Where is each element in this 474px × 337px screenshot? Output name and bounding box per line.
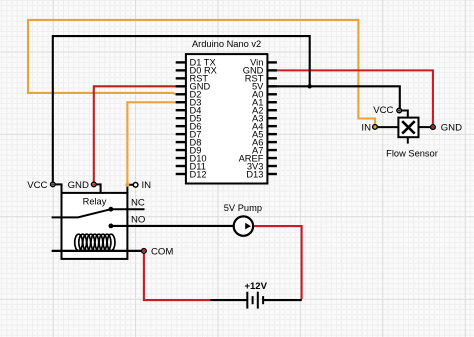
relay contact NC — [109, 207, 145, 212]
pin D7 — [176, 129, 202, 139]
relay coil L1 — [75, 234, 115, 250]
pin GND — [176, 82, 211, 92]
pin RST — [245, 74, 277, 84]
pin D9 — [176, 145, 202, 155]
pin RST — [176, 74, 209, 84]
svg-text:NO: NO — [131, 214, 145, 225]
wire D3 to Relay IN (orange) — [127, 102, 176, 185]
IC U1 Arduino Nano v2 body — [186, 54, 268, 183]
relay switch common arm — [52, 209, 111, 217]
pin A3 — [252, 113, 277, 123]
wire GND to Flow Sensor GND (red) — [276, 70, 433, 127]
svg-text:GND: GND — [68, 180, 89, 191]
pin D8 — [176, 137, 202, 147]
svg-text:Flow Sensor: Flow Sensor — [386, 149, 438, 159]
relay K1 body — [62, 193, 128, 259]
pin 5V — [252, 82, 277, 92]
terminal GND (relay) — [92, 182, 101, 193]
svg-text:D12: D12 — [190, 169, 207, 179]
pin D10 — [176, 153, 207, 163]
svg-text:Relay: Relay — [83, 197, 107, 207]
svg-text:COM: COM — [151, 246, 173, 257]
pump M1 5V Pump — [234, 216, 253, 235]
wire GND to Relay GND (red) — [94, 86, 176, 184]
svg-text:GND: GND — [441, 123, 462, 134]
pin D4 — [176, 106, 202, 116]
wire D2 to Flow Sensor IN (orange) — [28, 20, 375, 127]
relay contact NO — [109, 224, 234, 229]
wire Relay VCC to 5V junction (black) — [53, 36, 310, 184]
pin D6 — [176, 121, 202, 131]
pin D12 — [176, 169, 207, 179]
pin A7 — [252, 145, 277, 155]
terminal GND (flow sensor) — [431, 125, 436, 130]
svg-text:VCC: VCC — [373, 105, 393, 116]
svg-text:IN: IN — [142, 180, 152, 191]
pin 3V3 — [247, 161, 277, 171]
pin D1 TX — [176, 58, 216, 68]
pin D0 RX — [176, 66, 217, 76]
relay coil lead (COM) — [52, 250, 144, 252]
pin Vin — [250, 58, 277, 68]
terminal VCC (flow sensor) — [397, 108, 402, 113]
flow sensor U2 body — [375, 111, 433, 144]
pin A5 — [252, 129, 277, 139]
svg-text:IN: IN — [361, 122, 371, 133]
pin D3 — [176, 98, 202, 108]
pin D2 — [176, 90, 202, 100]
battery BT1 +12V — [210, 292, 302, 309]
terminal IN (flow sensor) — [373, 125, 378, 130]
pin D5 — [176, 113, 202, 123]
pin AREF — [239, 153, 277, 163]
svg-text:Arduino Nano v2: Arduino Nano v2 — [192, 39, 261, 49]
terminal COM (relay) — [142, 249, 147, 254]
wire 5V to Flow Sensor VCC (black) — [276, 86, 400, 110]
pin D11 — [176, 161, 206, 171]
svg-text:VCC: VCC — [27, 180, 47, 191]
svg-text:D13: D13 — [246, 169, 263, 179]
wire pump to battery (red) — [253, 226, 301, 299]
terminal VCC (relay) — [51, 182, 62, 193]
svg-text:NC: NC — [131, 198, 145, 209]
pin GND — [243, 66, 277, 76]
wire COM to battery (red) — [144, 252, 210, 300]
pin A6 — [252, 137, 277, 147]
pin A0 — [252, 90, 277, 100]
pin A4 — [252, 121, 277, 131]
junction 5V node — [308, 84, 312, 88]
pin A1 — [252, 98, 277, 108]
svg-text:+12V: +12V — [244, 281, 267, 292]
svg-text:5V Pump: 5V Pump — [224, 203, 262, 213]
pin D13 — [246, 169, 277, 179]
terminal IN (relay) — [126, 183, 138, 193]
pin A2 — [252, 106, 277, 116]
